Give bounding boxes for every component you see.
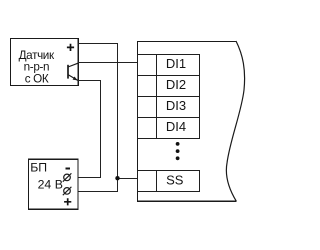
БП plus terminal label — [64, 198, 71, 205]
device torn right edge (S-curve) — [226, 41, 244, 201]
power supply box БП (24 В) — [29, 159, 79, 209]
wire: collector to DI1 terminal — [78, 62, 137, 64]
БП minus terminal label — [66, 168, 70, 170]
svg-text:DI1: DI1 — [166, 56, 186, 71]
terminal block grid DI1–DI4 (screw squares + label cells) — [137, 54, 200, 139]
svg-text:DI3: DI3 — [166, 98, 186, 113]
transistor Q1 emitter line with npn arrow — [68, 75, 78, 81]
device body fill (discrete input module) — [137, 41, 245, 201]
sensor box U1 (Датчик n-p-n с ОК) — [11, 39, 79, 86]
ellipsis dots (more inputs) — [176, 142, 180, 160]
device left, top and bottom edges — [138, 42, 237, 202]
БП screw terminal 2 (+) — [63, 187, 72, 195]
sensor + terminal — [67, 44, 74, 51]
svg-text:DI2: DI2 — [166, 77, 186, 92]
wire: emitter right, down, left to БП - terminal — [70, 81, 100, 178]
svg-text:DI4: DI4 — [166, 119, 186, 134]
svg-text:SS: SS — [166, 172, 184, 187]
terminal SS row — [138, 170, 200, 192]
wire: sensor + terminal right, down, left to БП + terminal — [70, 44, 117, 192]
transistor Q1 base bar — [67, 65, 69, 79]
svg-text:с ОК: с ОК — [25, 73, 49, 86]
wire: junction to SS terminal — [118, 178, 138, 180]
svg-text:24 В: 24 В — [38, 178, 63, 192]
svg-text:БП: БП — [30, 160, 47, 174]
БП screw terminal 1 (−) — [63, 173, 72, 181]
junction node (dot) — [115, 176, 119, 180]
transistor Q1 collector line — [68, 63, 78, 67]
sensor label "Датчик n-p-n с ОК" — [19, 49, 55, 86]
